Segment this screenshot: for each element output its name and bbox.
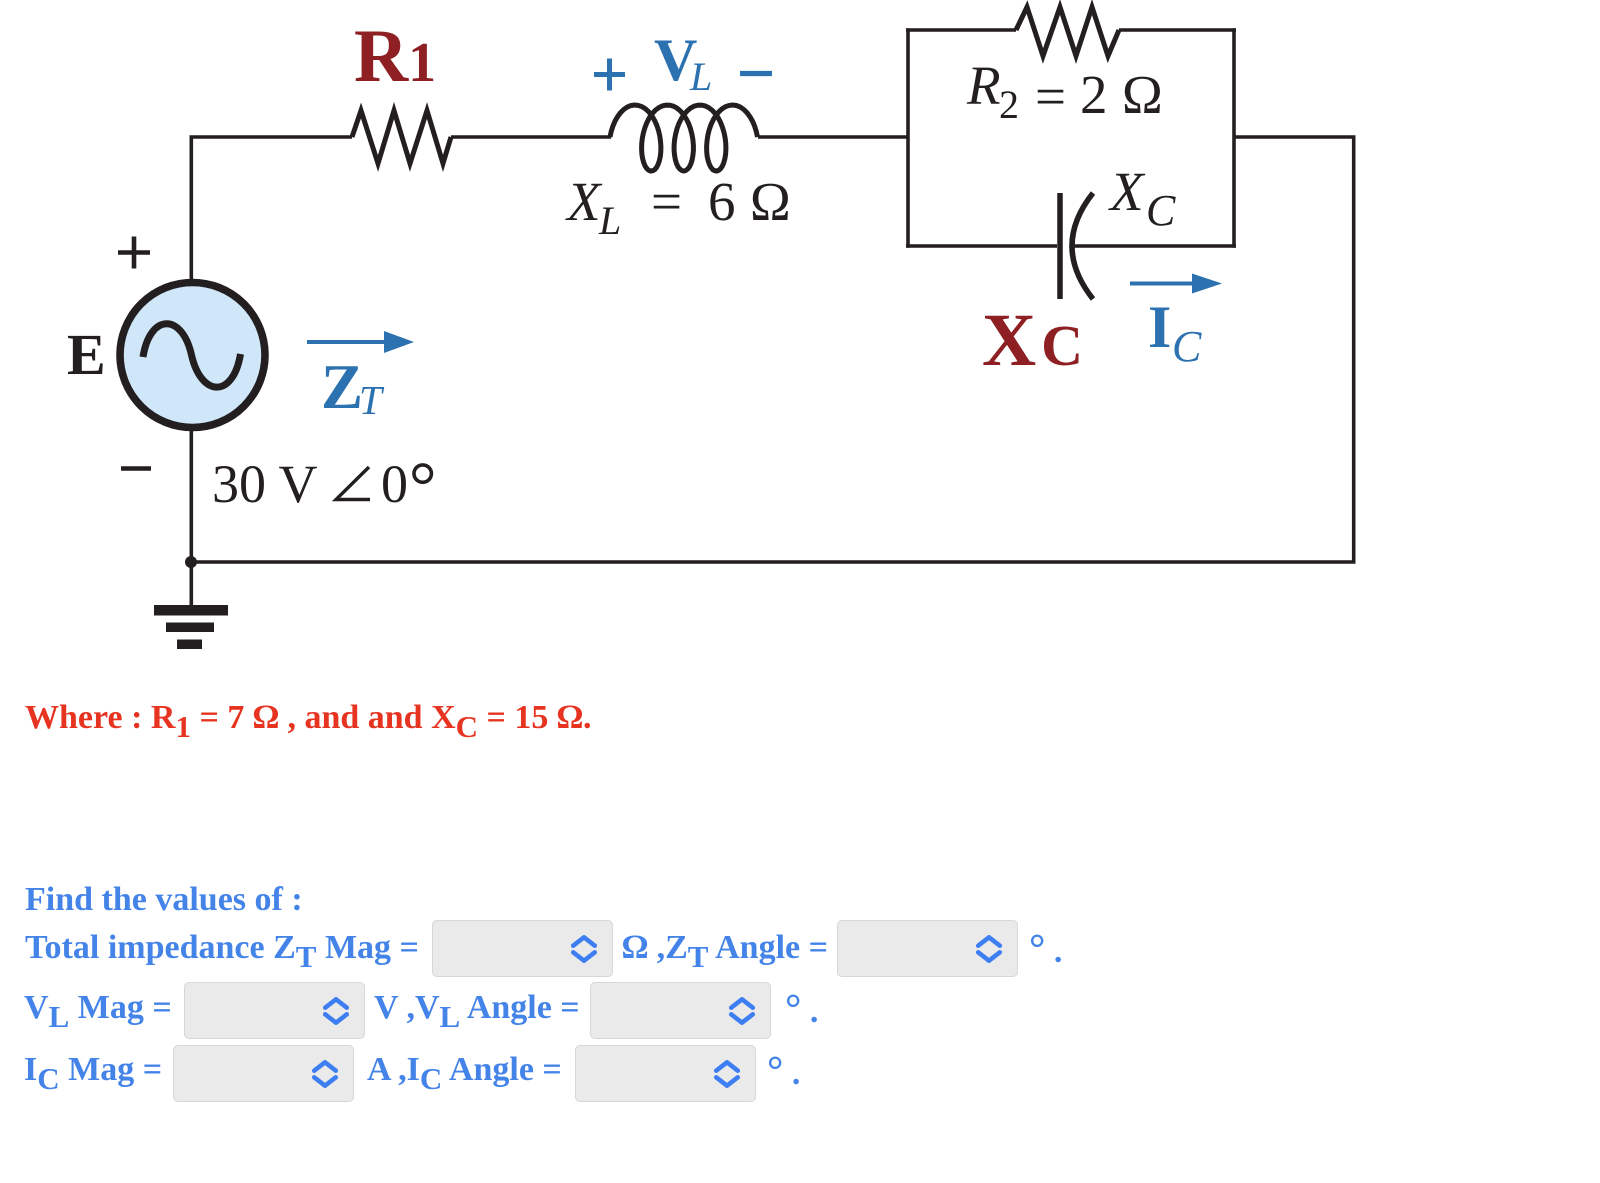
row VL label [24,991,172,1034]
row ZT label [25,931,419,974]
input VL magnitude [184,982,365,1039]
svg-text:2 Ω: 2 Ω [1080,64,1164,125]
label minus of source [121,466,151,471]
wire: box right edge to right rail [1234,135,1356,139]
wire: top-left horizontal from source branch to R1 [190,135,353,139]
input IC angle [575,1045,756,1102]
row IC degree mark [767,1053,800,1091]
wire: right rail vertical [1352,137,1356,562]
wire: box top edge right segment [1119,28,1236,32]
svg-text:=: = [651,171,682,232]
svg-text:R1: R1 [354,15,436,98]
svg-text:C: C [1172,322,1202,371]
row ZT degree mark [1029,931,1062,969]
row IC angle label [367,1053,562,1096]
svg-text:XC: XC [982,299,1083,382]
AC source E circle [120,283,265,428]
wire: ground stem [190,562,194,606]
svg-text:L: L [689,54,712,99]
row VL degree mark [785,991,818,1029]
arrow IC [1130,282,1196,286]
svg-text:T: T [359,377,385,423]
input VL angle [590,982,771,1039]
wire: box top edge left segment [906,28,1016,32]
wire: box left edge [906,28,910,248]
wire: box bottom edge left segment [906,244,1057,248]
wire: inductor to box [758,135,908,139]
row VL angle label [374,991,580,1034]
row IC label [24,1053,162,1096]
wire: source bottom lead [190,427,194,562]
svg-text:R: R [966,55,1001,116]
capacitor XC flat plate [1057,193,1063,299]
where-values red note [25,701,592,744]
ground [154,605,228,616]
label minus of VL [740,71,772,76]
label plus of source [118,237,150,269]
svg-text:2: 2 [999,82,1019,127]
degree mark of source voltage [414,465,431,482]
input ZT angle [837,920,1018,977]
svg-text:Z: Z [321,352,363,422]
svg-text:6 Ω: 6 Ω [708,171,792,232]
svg-text:0: 0 [381,454,408,514]
svg-text:=: = [1035,66,1066,127]
svg-text:I: I [1148,294,1171,360]
find-values heading [25,883,303,917]
input ZT magnitude [432,920,613,977]
resistor R2 [1016,7,1119,56]
resistor R1 [352,111,451,164]
svg-text:30 V: 30 V [212,454,318,514]
angle symbol [336,467,370,500]
row ZT angle label [622,931,828,974]
capacitor XC curved plate [1072,193,1093,299]
wire: R1 to inductor [451,135,611,139]
wire: bottom rail [190,560,1356,564]
AC source sine wave [143,324,241,387]
wire: source top lead [190,137,194,284]
svg-text:C: C [1146,186,1176,235]
wire: box bottom edge right segment [1072,244,1236,248]
inductor L (XL) [610,105,758,171]
arrow ZT [307,340,392,344]
wire: box right edge [1232,28,1236,248]
svg-text:X: X [565,171,603,232]
node junction dot [185,556,197,568]
svg-text:X: X [1108,161,1146,222]
svg-text:L: L [598,198,621,243]
input IC magnitude [173,1045,354,1102]
label + VL - (polarity plus) [594,59,625,91]
svg-text:E: E [67,322,106,387]
